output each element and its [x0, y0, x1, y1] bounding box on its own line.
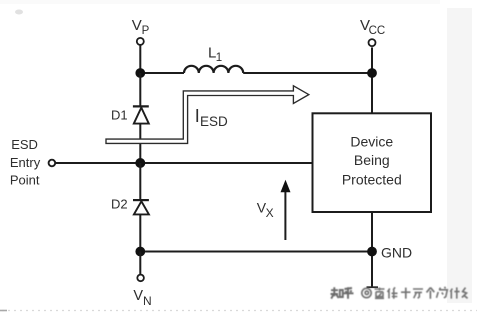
svg-text:CC: CC — [369, 25, 386, 37]
ge — [427, 288, 435, 299]
wire: VCC stub down to device box — [371, 47, 373, 113]
hu — [344, 287, 354, 299]
diode D2 — [133, 200, 149, 214]
svg-text:Being: Being — [354, 152, 390, 168]
wire: D2 anode down to bottom junction — [139, 214, 141, 251]
terminal ESD entry — [49, 160, 56, 167]
at-sign — [362, 288, 371, 297]
ying — [375, 288, 385, 299]
node: VP junction — [135, 68, 145, 78]
wire: top rail right segment — [243, 72, 372, 74]
me — [462, 288, 468, 299]
wire: end bar of GND stub — [367, 286, 379, 288]
terminal VN — [137, 275, 144, 282]
svg-text:N: N — [143, 294, 152, 308]
node: VCC junction — [367, 68, 377, 78]
node: bottom-left junction — [135, 247, 145, 257]
svg-text:V: V — [132, 17, 142, 34]
svg-text:1: 1 — [216, 52, 222, 64]
wire: entry junction to D2 — [139, 163, 141, 200]
wan — [413, 289, 423, 298]
terminal VCC — [369, 39, 376, 46]
wire: stub to VN terminal — [139, 252, 141, 275]
ESD current hollow arrow — [106, 86, 309, 144]
zhi — [331, 287, 343, 298]
watermark zhihu — [331, 287, 468, 299]
svg-text:Device: Device — [350, 134, 393, 150]
svg-text:P: P — [142, 25, 150, 37]
svg-text:V: V — [133, 288, 143, 304]
svg-text:X: X — [266, 206, 274, 220]
device box U1 — [313, 113, 432, 212]
jian — [388, 287, 398, 298]
wire: D1 anode to entry junction — [139, 124, 141, 163]
wire: VP terminal stub — [139, 45, 141, 73]
faint dotted rule at bottom — [2, 310, 477, 312]
terminal VP — [137, 38, 144, 45]
shen — [450, 287, 459, 298]
VX arrow — [284, 192, 286, 240]
svg-text:D1: D1 — [111, 108, 128, 123]
svg-text:ESD: ESD — [11, 137, 38, 152]
shi — [401, 288, 411, 299]
wire: device box bottom to GND line end — [371, 212, 373, 288]
wire: top rail left segment — [139, 72, 184, 74]
wire: left rail VP junction to D1 — [139, 73, 141, 106]
inductor L1 — [184, 66, 243, 73]
small smudge artifact top-left — [15, 10, 23, 15]
svg-text:Point: Point — [10, 173, 40, 188]
faint top edge band — [0, 0, 440, 4]
wire: ESD entry horizontal — [56, 162, 313, 164]
svg-text:Entry: Entry — [10, 155, 41, 170]
node: GND junction — [367, 247, 377, 257]
wei — [437, 287, 448, 298]
svg-text:Protected: Protected — [342, 171, 402, 187]
svg-text:ESD: ESD — [200, 114, 228, 129]
svg-text:D2: D2 — [111, 197, 128, 212]
wire: bottom rail to GND — [140, 251, 372, 253]
svg-text:GND: GND — [381, 244, 412, 260]
faint right side band — [447, 8, 472, 303]
diode D1 — [133, 106, 149, 123]
node: entry junction — [135, 158, 145, 168]
